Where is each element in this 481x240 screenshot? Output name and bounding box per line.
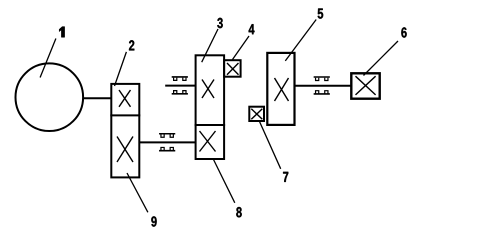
label 8 (236, 207, 241, 217)
label 2 (129, 40, 134, 50)
leader line 6 (364, 41, 399, 76)
block 4 (small box with X, attached to box 3) (224, 60, 241, 76)
leader line 5 (285, 20, 316, 61)
block 7 (small box with X, attached to box 5) (249, 107, 264, 121)
leader line 3 (202, 29, 218, 62)
leader line 4 (233, 36, 250, 60)
label 3 (217, 18, 222, 28)
leader line 7 (260, 122, 281, 169)
coupling X in cell 9 (117, 137, 133, 163)
motor M1 (electric motor circle) (16, 63, 84, 131)
X in block 7 (251, 109, 262, 120)
leader line 1 (40, 39, 56, 78)
wire: input shaft stub into box 3 upper cell (165, 85, 195, 87)
gear pair symbol G1 on shaft 2-3 (159, 134, 175, 151)
leader line 2 (115, 52, 127, 86)
gear pair symbol G2 on input stub (172, 77, 188, 94)
block 5 (tall box) (267, 53, 294, 125)
gear pair symbol G3 on shaft 5-6 (314, 77, 330, 94)
coupling block 2/9 (two-cell box) (110, 84, 140, 177)
wire: motor shaft to box 2 (83, 97, 112, 99)
label 5 (318, 9, 323, 19)
label 6 (401, 27, 406, 37)
coupling X in cell 8 (200, 131, 216, 152)
gearbox block 3/8 (two-cell box) (195, 55, 226, 159)
X in block 6 (356, 76, 376, 95)
label 4 (249, 24, 255, 34)
X in block 4 (227, 63, 239, 75)
leader line 8 (213, 159, 235, 203)
coupling X in cell 2 (119, 90, 131, 107)
wire: shaft box 2 to box 3 (139, 141, 195, 143)
X in block 5 (275, 78, 289, 101)
block 6 (box with X) (351, 73, 379, 98)
leader line 9 (127, 173, 148, 212)
coupling X in cell 3 (202, 80, 214, 99)
wire: shaft box 5 to box 6 (295, 85, 352, 87)
label 1 (59, 27, 64, 38)
label 9 (151, 216, 156, 226)
label 7 (283, 172, 288, 182)
